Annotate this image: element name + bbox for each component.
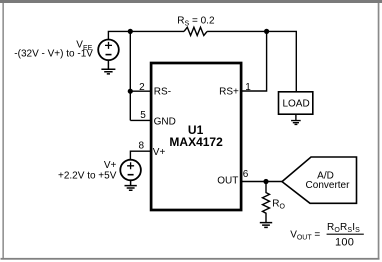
wire: pin 5 GND — [130, 119, 151, 121]
voltage source V+ — [120, 160, 141, 181]
svg-text:OUT: OUT — [217, 176, 238, 187]
wire: OUT to A/D converter — [242, 181, 283, 183]
svg-text:100: 100 — [335, 236, 354, 248]
load box — [279, 92, 313, 114]
svg-text:8: 8 — [139, 140, 145, 151]
node: junction at RS+ branch — [264, 29, 269, 34]
node: junction at OUT — [263, 179, 268, 184]
wire: VEE source stub to top rail left segment — [108, 31, 184, 39]
A/D converter — [282, 157, 357, 203]
wire: pin 8 V+ — [130, 151, 151, 159]
ground (VEE source) — [101, 60, 115, 74]
wire: pin 2 RS- — [130, 90, 151, 92]
svg-text:RS = 0.2: RS = 0.2 — [177, 15, 215, 27]
svg-text:Converter: Converter — [306, 180, 351, 191]
ground (V+ source) — [125, 180, 137, 190]
node: junction at pin 2 — [128, 89, 133, 94]
wire: top rail right segment down to LOAD — [207, 31, 296, 91]
voltage source VEE — [98, 40, 119, 61]
wire: left rail from top rail to pin 5 — [129, 31, 131, 120]
svg-text:6: 6 — [243, 169, 249, 180]
svg-text:LOAD: LOAD — [282, 98, 309, 109]
svg-text:+2.2V to +5V: +2.2V to +5V — [58, 170, 117, 181]
formula VOUT = RORSIS / 100 — [290, 222, 364, 249]
svg-text:-(32V - V+) to -1V: -(32V - V+) to -1V — [14, 48, 93, 59]
IC U1 MAX4172 — [151, 63, 241, 210]
svg-text:GND: GND — [154, 117, 176, 128]
resistor RO — [263, 182, 270, 223]
svg-text:2: 2 — [139, 82, 145, 93]
svg-text:5: 5 — [140, 110, 146, 121]
svg-text:RS+: RS+ — [219, 86, 239, 97]
wire: pin 1 RS+ — [242, 31, 267, 91]
svg-text:V+: V+ — [153, 147, 166, 158]
ground (load) — [291, 114, 301, 124]
svg-text:1: 1 — [245, 82, 251, 93]
svg-text:RS-: RS- — [154, 86, 171, 97]
svg-text:MAX4172: MAX4172 — [169, 135, 223, 149]
resistor RS — [184, 27, 207, 35]
node: junction at RS- branch — [128, 29, 133, 34]
ground (RO) — [260, 223, 272, 228]
